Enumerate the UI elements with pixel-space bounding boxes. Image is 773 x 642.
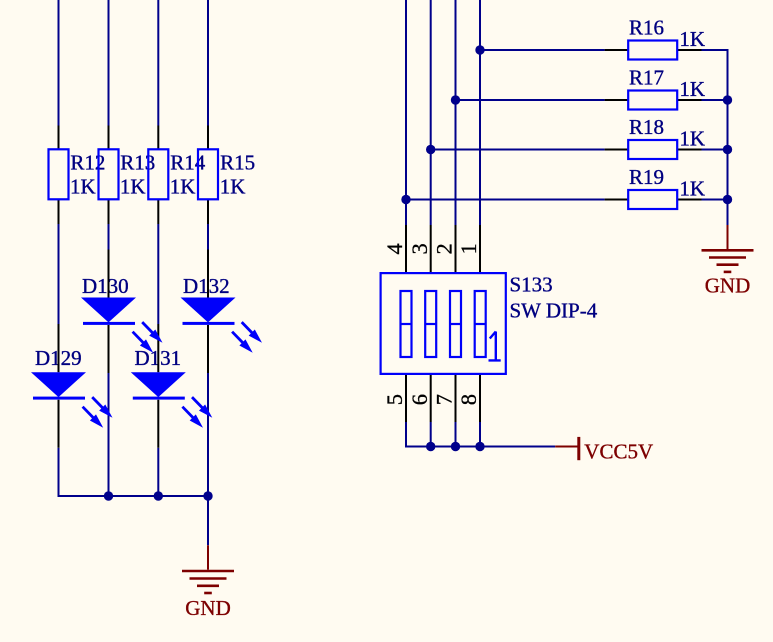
svg-text:1K: 1K (679, 27, 705, 51)
svg-text:8: 8 (456, 394, 481, 405)
svg-text:R12: R12 (70, 151, 105, 175)
svg-text:1K: 1K (679, 177, 705, 201)
svg-text:R18: R18 (629, 115, 664, 139)
svg-text:1: 1 (456, 243, 481, 254)
svg-text:3: 3 (407, 243, 432, 254)
svg-text:R15: R15 (220, 151, 255, 175)
svg-text:1K: 1K (220, 175, 246, 199)
svg-text:7: 7 (432, 394, 457, 405)
svg-text:5: 5 (382, 394, 407, 405)
svg-text:R13: R13 (120, 151, 155, 175)
svg-text:R17: R17 (629, 66, 664, 90)
svg-text:D130: D130 (82, 274, 129, 298)
svg-text:1K: 1K (679, 127, 705, 151)
svg-text:GND: GND (185, 596, 231, 620)
svg-text:SW DIP-4: SW DIP-4 (510, 299, 598, 323)
svg-text:S133: S133 (510, 273, 553, 297)
svg-text:4: 4 (382, 243, 407, 254)
svg-text:1K: 1K (120, 175, 146, 199)
svg-text:2: 2 (432, 243, 457, 254)
svg-text:R16: R16 (629, 16, 664, 40)
svg-text:1K: 1K (70, 175, 96, 199)
svg-text:VCC5V: VCC5V (584, 440, 653, 464)
svg-text:D132: D132 (183, 274, 230, 298)
svg-text:GND: GND (705, 274, 751, 298)
svg-text:R19: R19 (629, 165, 664, 189)
svg-text:6: 6 (407, 394, 432, 405)
svg-text:R14: R14 (170, 151, 206, 175)
svg-text:1K: 1K (170, 175, 196, 199)
svg-text:1K: 1K (679, 77, 705, 101)
